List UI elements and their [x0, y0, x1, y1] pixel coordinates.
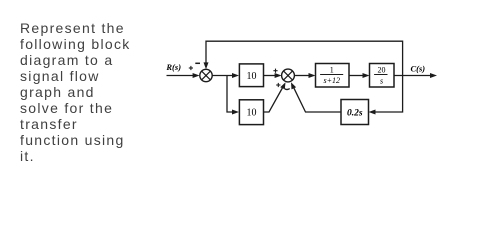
- block G4 transfer 20/s: [370, 64, 395, 88]
- problem statement text: [20, 20, 160, 165]
- svg-text:1: 1: [330, 65, 334, 74]
- sign + at S2 top input: [273, 69, 277, 73]
- svg-text:10: 10: [247, 71, 257, 82]
- wire outer feedback top: from node B down into S1: [204, 41, 403, 75]
- block G1 gain 10: [239, 64, 263, 87]
- summing junction S2: [282, 69, 295, 82]
- svg-text:s+12: s+12: [324, 76, 341, 85]
- summing junction S1: [200, 69, 212, 81]
- sign - at S2 bottom input: [285, 88, 290, 91]
- svg-text:s: s: [380, 77, 383, 86]
- svg-text:0.2s: 0.2s: [347, 108, 363, 118]
- wire H1 output diagonal up to S2: [291, 82, 341, 112]
- node C(s) output label: [411, 63, 426, 73]
- node R(s) input label: [165, 62, 181, 72]
- wire node B down to block H1: [369, 76, 403, 115]
- wire G2 output diagonal up to S2: [264, 82, 286, 112]
- wire branch node A down to block G2: [227, 76, 239, 115]
- svg-text:C(s): C(s): [411, 63, 426, 73]
- wire G3 to block G4: [349, 73, 370, 78]
- svg-text:10: 10: [247, 108, 257, 119]
- svg-text:20: 20: [378, 66, 386, 75]
- sign - at S1 feedback: [195, 62, 200, 64]
- block H1 transfer 0.2s: [341, 100, 369, 125]
- wire G4 to output with branch node B: [394, 73, 437, 78]
- wire S2 to block G3: [294, 73, 315, 78]
- block G3 transfer 1/(s+12): [316, 64, 350, 88]
- wire G1 to summing junction S2: [264, 73, 282, 78]
- wire S1 to block G1 with branch node A: [212, 73, 239, 78]
- block G2 gain 10: [239, 100, 263, 125]
- sign + at S2 lower-left input: [276, 83, 280, 87]
- wire input to summing junction S1: [167, 73, 200, 78]
- svg-text:R(s): R(s): [165, 62, 181, 72]
- sign + at S1 input: [189, 66, 193, 70]
